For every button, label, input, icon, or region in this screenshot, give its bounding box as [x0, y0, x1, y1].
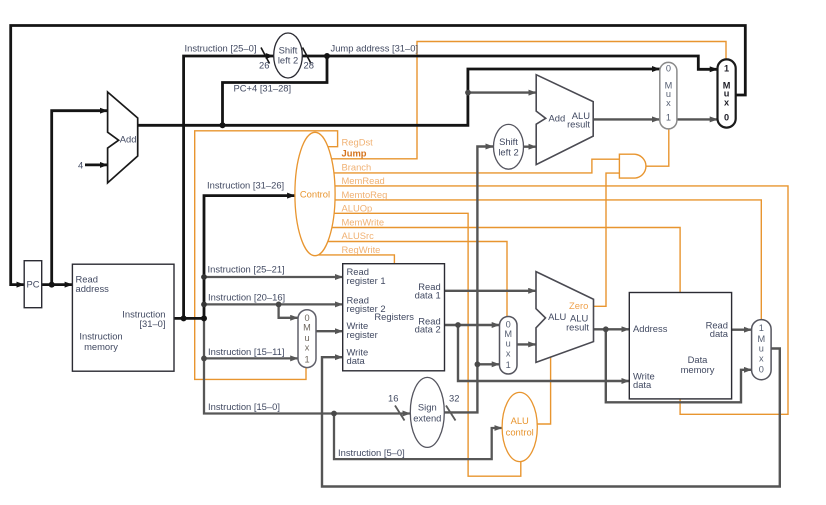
svg-text:PC: PC — [26, 279, 39, 290]
svg-text:memory: memory — [84, 341, 118, 352]
svg-text:MemtoReg: MemtoReg — [342, 189, 388, 200]
wire AND gate output to Mux branch select — [646, 129, 669, 166]
junction read data 2 split — [455, 322, 461, 328]
svg-text:data: data — [710, 328, 729, 339]
svg-text:Branch: Branch — [342, 161, 372, 172]
svg-text:address: address — [76, 283, 110, 294]
svg-text:ALUSrc: ALUSrc — [342, 230, 375, 241]
svg-text:x: x — [759, 354, 764, 364]
svg-text:[31–0]: [31–0] — [139, 318, 165, 329]
AND gate branch — [619, 154, 646, 178]
adder Add branch target — [536, 75, 593, 165]
svg-text:M: M — [303, 323, 311, 333]
wire shift left 2 output to branch adder bottom input — [515, 145, 536, 147]
svg-text:ALUOp: ALUOp — [342, 202, 373, 213]
svg-text:u: u — [506, 338, 511, 348]
oval shift left 2 branch — [494, 124, 524, 169]
svg-text:data: data — [633, 379, 652, 390]
svg-text:RegDst: RegDst — [342, 136, 374, 147]
wire ALU control output — [520, 357, 551, 424]
svg-text:data: data — [347, 355, 366, 366]
svg-text:MemWrite: MemWrite — [342, 216, 385, 227]
wire Instruction [15-11] to RegDst mux input 1 — [204, 357, 298, 359]
svg-text:register 1: register 1 — [347, 275, 386, 286]
svg-text:control: control — [506, 427, 534, 438]
junction instruction 20-16 tap — [201, 302, 207, 308]
junction instruction 15-0 to 5-0 drop — [331, 411, 337, 417]
svg-text:Jump: Jump — [342, 148, 367, 159]
wire PC output up to Add — [52, 111, 108, 285]
svg-text:Address: Address — [633, 323, 668, 334]
svg-text:0: 0 — [666, 63, 671, 73]
svg-text:Registers: Registers — [374, 311, 414, 322]
junction instruction 25-0 tap — [181, 315, 187, 321]
wire Instruction [5-0] to ALU control — [334, 414, 502, 460]
bit width slash 26 — [261, 48, 270, 64]
wire ALU result to data memory Address — [591, 328, 629, 330]
svg-text:x: x — [666, 98, 671, 108]
wire Jump address [31-0] to jump mux input 1 — [295, 56, 718, 69]
svg-text:0: 0 — [506, 320, 511, 330]
adder Add PC+4 — [108, 92, 138, 183]
svg-text:1: 1 — [724, 63, 729, 73]
wire write-back loop to registers Write data — [322, 349, 780, 487]
wire Zero flag — [585, 173, 619, 306]
svg-text:Instruction [25–0]: Instruction [25–0] — [185, 43, 257, 54]
svg-text:0: 0 — [759, 365, 764, 375]
wire PC+4 to branch adder top input — [468, 91, 536, 93]
svg-text:ALU: ALU — [511, 415, 529, 426]
wire Instruction [20-16] to Read register 2 — [204, 303, 343, 305]
svg-text:ALU: ALU — [548, 311, 566, 322]
junction 20-16 to mux drop — [276, 302, 282, 308]
svg-text:Zero: Zero — [569, 300, 588, 311]
svg-text:1: 1 — [759, 323, 764, 333]
svg-text:memory: memory — [681, 364, 715, 375]
junction jump address concat — [324, 53, 330, 59]
junction ALU result split — [603, 326, 609, 332]
svg-text:M: M — [757, 334, 765, 344]
wire Instruction [31-0] from instruction memory — [172, 317, 204, 320]
svg-text:u: u — [759, 344, 764, 354]
junction PC+4 to branch adder — [465, 90, 471, 96]
svg-text:Jump address [31–0]: Jump address [31–0] — [331, 43, 419, 54]
block PC — [24, 261, 42, 308]
wire MemWrite control — [315, 228, 680, 293]
wire Branch control — [315, 159, 619, 173]
svg-text:Add: Add — [120, 134, 137, 145]
svg-text:Instruction: Instruction — [79, 331, 122, 342]
svg-text:left 2: left 2 — [498, 147, 518, 158]
block registers — [343, 264, 445, 371]
junction PC output — [49, 282, 55, 288]
junction instruction main split — [201, 315, 207, 321]
svg-text:Instruction [15–0]: Instruction [15–0] — [208, 401, 280, 412]
svg-text:1: 1 — [304, 354, 309, 364]
wire RegDst control — [195, 131, 338, 380]
wire Jump control — [315, 42, 726, 159]
junction instruction 25-21 tap — [201, 274, 207, 280]
svg-text:MemRead: MemRead — [342, 175, 385, 186]
wire ALUOp control — [315, 213, 521, 476]
svg-text:Instruction [20–16]: Instruction [20–16] — [208, 291, 285, 302]
svg-text:Sign: Sign — [418, 402, 437, 413]
svg-text:Instruction [15–11]: Instruction [15–11] — [208, 346, 284, 357]
wire PC feedback from jump mux around the top into PC — [11, 26, 746, 285]
wire branch adder result to Mux branch input 1 — [590, 118, 660, 120]
wire sign extend branch to ALUSrc mux input 1 — [477, 363, 499, 365]
junction sign extend output split — [475, 361, 481, 367]
wire Read data 2 to data memory Write data — [458, 325, 629, 381]
bit width slash 28 — [303, 48, 312, 64]
mux branch PCSrc — [660, 62, 677, 128]
svg-text:x: x — [305, 343, 310, 353]
mux MemtoReg — [752, 320, 772, 380]
wire constant 4 into Add — [85, 163, 108, 166]
wire PC+4 from Add to branch mux input 0 — [133, 69, 660, 125]
wire MemRead control — [315, 186, 788, 414]
svg-text:u: u — [304, 333, 309, 343]
svg-text:32: 32 — [449, 393, 459, 404]
oval sign extend — [410, 377, 444, 447]
svg-text:1: 1 — [506, 360, 511, 370]
svg-text:Instruction [31–26]: Instruction [31–26] — [207, 180, 284, 191]
junction instruction 15-11 tap — [201, 356, 207, 362]
wire ALUSrc mux output to ALU input 2 — [513, 343, 536, 345]
svg-text:result: result — [566, 322, 589, 333]
wire RegDst mux output to Write register — [312, 330, 343, 332]
svg-text:Instruction [5–0]: Instruction [5–0] — [338, 447, 405, 458]
mux jump — [718, 59, 736, 127]
wire data memory Read data to MemtoReg mux input 1 — [728, 329, 752, 331]
wire Read data 1 to ALU input 1 — [440, 290, 536, 292]
wire ALU result bypass to MemtoReg mux input 0 — [606, 329, 752, 402]
svg-text:PC+4 [31–28]: PC+4 [31–28] — [234, 83, 292, 94]
oval Control — [295, 132, 335, 255]
svg-text:x: x — [724, 98, 730, 108]
wire Instruction [31-26] to Control — [204, 196, 295, 319]
wire ALUSrc control — [315, 242, 507, 317]
svg-text:Control: Control — [300, 189, 330, 200]
svg-text:Add: Add — [549, 113, 566, 124]
wire PC+4 [31-28] concatenation — [223, 56, 328, 125]
svg-text:Shift: Shift — [499, 136, 518, 147]
svg-text:data 1: data 1 — [415, 289, 441, 300]
oval shift left 2 jump — [274, 33, 303, 78]
svg-text:Instruction [25–21]: Instruction [25–21] — [208, 263, 285, 274]
svg-text:26: 26 — [259, 60, 269, 71]
mux ALUSrc — [500, 317, 518, 375]
svg-text:register: register — [347, 329, 378, 340]
junction PC+4 to jump concat — [220, 122, 226, 128]
block instruction memory — [72, 264, 174, 371]
wire Instruction [25-21] to Read register 1 — [204, 276, 343, 278]
svg-text:28: 28 — [304, 60, 314, 71]
mux RegDst — [298, 310, 316, 368]
ALU main — [536, 272, 594, 363]
wire branch mux output to jump mux input 0 — [677, 118, 718, 120]
svg-text:1: 1 — [666, 112, 671, 122]
svg-text:RegWrite: RegWrite — [342, 244, 381, 255]
svg-text:result: result — [567, 119, 590, 130]
svg-text:x: x — [506, 349, 511, 359]
svg-text:0: 0 — [304, 313, 309, 323]
oval ALU control — [502, 392, 537, 461]
block data memory — [629, 293, 731, 399]
wire sign extend output up to shift left 2 — [440, 147, 493, 413]
wire RegWrite control — [315, 255, 394, 264]
wire Instruction [15-0] to sign extend — [204, 318, 410, 413]
svg-text:left 2: left 2 — [278, 54, 298, 65]
wire Instruction [25-0] up to shift left 2 — [184, 56, 274, 318]
svg-text:16: 16 — [388, 393, 398, 404]
bit width slash 32 — [446, 406, 456, 421]
wire PC output to instruction memory Read address — [42, 283, 73, 286]
wire MemtoReg control — [315, 200, 761, 320]
wire Read data 2 to ALUSrc mux input 0 — [440, 324, 500, 326]
svg-text:4: 4 — [78, 159, 83, 170]
svg-text:0: 0 — [724, 112, 729, 122]
svg-text:extend: extend — [413, 413, 441, 424]
svg-text:data 2: data 2 — [415, 324, 441, 335]
wire Instruction [20-16] branch to RegDst mux input 0 — [279, 304, 298, 317]
bit width slash 16 — [395, 406, 405, 421]
